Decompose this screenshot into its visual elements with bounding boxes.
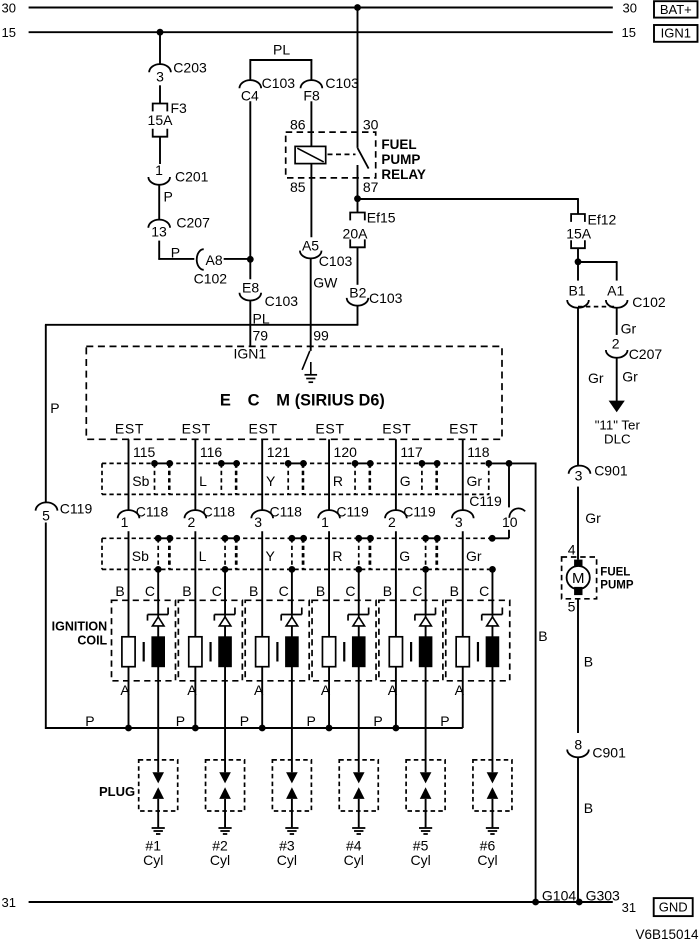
spark plug 3 ground wire <box>291 799 293 828</box>
coil 2 core <box>209 642 211 662</box>
wire C118-1 to coil 1 <box>128 531 130 637</box>
wire pin10 to shield row 2 <box>508 530 510 539</box>
svg-text:13: 13 <box>151 224 167 240</box>
wire C119-3 to coil 6 <box>462 531 464 637</box>
connector C118 pin 1 <box>118 510 140 518</box>
coil 5 secondary winding <box>419 637 432 667</box>
svg-text:C103: C103 <box>369 290 403 306</box>
spark plug 6 ground wire <box>491 799 493 828</box>
shield row2 box Y <box>236 537 292 539</box>
svg-text:C: C <box>248 392 260 410</box>
coil 5 primary winding <box>389 637 402 667</box>
coil 2 secondary winding <box>219 637 232 667</box>
coil 6 secondary winding <box>486 637 499 667</box>
svg-text:5: 5 <box>568 599 576 615</box>
svg-text:C118: C118 <box>136 504 169 520</box>
svg-text:B1: B1 <box>568 282 585 298</box>
shield row2 box G <box>369 537 425 539</box>
spark plug 5 box <box>406 760 445 811</box>
svg-text:EST: EST <box>249 421 278 437</box>
EST wire pin 118 <box>462 439 464 510</box>
wire C119-2 to coil 5 <box>395 531 397 637</box>
wire C118-3 to coil 3 <box>261 531 263 637</box>
shield row1 right-end drain to B wire and C119 pin 10 <box>485 460 492 467</box>
shield row1 box Gr wire 118 <box>436 462 489 464</box>
svg-text:3: 3 <box>455 514 463 530</box>
P bus wire feeding coil A pins <box>45 727 463 729</box>
shield row1 drain bridge 4-5 <box>355 462 370 464</box>
coil 6 spark wire to plug <box>491 667 493 773</box>
coil 1 zener diode <box>148 614 169 616</box>
coil 3 C internal wire <box>291 626 293 637</box>
junction A8/C4 node <box>247 256 254 263</box>
svg-text:P: P <box>307 713 316 729</box>
svg-text:15A: 15A <box>148 112 174 128</box>
svg-text:M: M <box>572 570 585 587</box>
spark plug 5 ground <box>419 827 432 829</box>
shield row1 box Sb wire 115 <box>102 462 155 464</box>
spark plug 6 ground <box>486 827 499 829</box>
wire Ef15 to B2 <box>357 247 359 284</box>
svg-text:PUMP: PUMP <box>381 152 420 167</box>
svg-text:2: 2 <box>187 514 195 530</box>
junction node 87/Ef15/Ef12 <box>354 195 361 202</box>
svg-text:Ef12: Ef12 <box>588 212 617 228</box>
svg-text:Cyl: Cyl <box>477 852 497 868</box>
wire C203 to fuse F3 <box>159 85 161 103</box>
coil 1 C internal wire <box>157 626 159 637</box>
junction Ef12/B1/A1 <box>575 258 582 265</box>
wire A8 to junction <box>224 258 251 260</box>
svg-text:C: C <box>145 583 155 599</box>
svg-text:1: 1 <box>121 514 129 530</box>
svg-text:B2: B2 <box>349 285 366 301</box>
svg-text:20A: 20A <box>343 226 369 242</box>
connector C901 pin 3 <box>569 466 591 474</box>
svg-text:Gr: Gr <box>621 321 637 337</box>
shield row2 box R <box>303 537 359 539</box>
svg-text:C4: C4 <box>241 87 259 103</box>
shield row2 drain bridge 5-6 <box>426 537 438 539</box>
svg-text:86: 86 <box>290 116 306 132</box>
svg-text:EST: EST <box>382 421 411 437</box>
wire B2 to PL horizontal <box>357 306 359 325</box>
svg-text:2: 2 <box>612 336 620 352</box>
junction coil 5 A to P bus <box>393 725 400 732</box>
svg-text:117: 117 <box>400 444 423 460</box>
svg-text:FUEL: FUEL <box>600 566 630 578</box>
shield row2 drain node to coil 6 C pin <box>489 566 496 573</box>
ignition coil 3 box <box>245 600 309 681</box>
svg-text:B: B <box>584 654 593 670</box>
svg-text:C207: C207 <box>629 346 663 362</box>
EST wire pin 120 <box>328 439 330 510</box>
svg-text:C103: C103 <box>319 253 353 269</box>
svg-text:C103: C103 <box>265 293 299 309</box>
svg-text:4: 4 <box>568 541 576 557</box>
spark plug 1 ground <box>152 827 165 829</box>
svg-text:C118: C118 <box>270 504 303 520</box>
relay coil <box>295 146 326 163</box>
fuse F3 15A <box>153 104 168 112</box>
svg-text:A: A <box>388 682 398 698</box>
svg-text:A: A <box>455 682 465 698</box>
svg-text:87: 87 <box>363 179 379 195</box>
coil 2 C internal wire <box>224 626 226 637</box>
ignition coil 5 box <box>379 600 443 681</box>
svg-text:GND: GND <box>659 900 688 915</box>
svg-text:R: R <box>333 473 343 489</box>
connector A8 C102 <box>197 249 204 270</box>
svg-text:Cyl: Cyl <box>410 852 430 868</box>
svg-text:C901: C901 <box>592 745 626 761</box>
fuel pump motor M <box>567 566 590 589</box>
svg-text:#1: #1 <box>145 838 161 854</box>
wire C201 to C207, P <box>158 185 160 220</box>
arrow to DLC <box>609 401 625 413</box>
svg-text:P: P <box>240 713 249 729</box>
svg-text:(SIRIUS D6): (SIRIUS D6) <box>295 392 385 410</box>
svg-text:PL: PL <box>273 42 290 58</box>
coil 4 primary winding <box>322 637 335 667</box>
ignition coil 4 box <box>312 600 376 681</box>
BAT+ terminal box <box>654 1 698 17</box>
svg-text:85: 85 <box>290 179 306 195</box>
svg-text:C: C <box>212 583 222 599</box>
svg-text:#5: #5 <box>413 838 429 854</box>
coil 4 core <box>343 642 345 662</box>
svg-text:A1: A1 <box>607 282 624 298</box>
spark plug 1 ground wire <box>157 799 159 828</box>
svg-text:A: A <box>187 682 197 698</box>
svg-text:30: 30 <box>2 0 16 15</box>
wire to A1 <box>616 262 618 281</box>
relay pin 87 wire <box>357 165 359 199</box>
svg-text:C: C <box>412 583 422 599</box>
EST wire pin 121 <box>261 439 263 510</box>
shield row2 box Gr <box>436 537 492 539</box>
coil 1 spark wire to plug <box>157 667 159 773</box>
shield row1 box L wire 116 <box>169 462 222 464</box>
svg-text:P: P <box>50 400 59 416</box>
connector C118 pin 2 <box>185 510 207 518</box>
connector C119 pin 10 <box>509 508 525 517</box>
svg-text:Sb: Sb <box>132 473 149 489</box>
svg-text:C119: C119 <box>60 500 93 516</box>
svg-text:116: 116 <box>200 444 223 460</box>
wire B1 down to C901, Gr <box>577 308 579 466</box>
svg-text:"11" Ter: "11" Ter <box>595 418 641 433</box>
coil 1 core <box>143 642 145 662</box>
svg-text:EST: EST <box>449 421 478 437</box>
coil 1 primary winding <box>122 637 135 667</box>
svg-text:L: L <box>199 473 207 489</box>
svg-text:B: B <box>450 583 459 599</box>
svg-text:C102: C102 <box>632 294 666 310</box>
svg-text:Cyl: Cyl <box>210 852 230 868</box>
svg-text:C119: C119 <box>469 493 502 509</box>
svg-text:A: A <box>120 682 130 698</box>
svg-text:COIL: COIL <box>77 633 107 647</box>
svg-text:31: 31 <box>2 895 16 910</box>
svg-text:B: B <box>538 628 547 644</box>
ground G104 junction <box>532 899 539 906</box>
svg-text:Gr: Gr <box>466 548 482 564</box>
wire bus30 to relay pin 30 <box>354 4 361 11</box>
svg-text:B: B <box>115 583 124 599</box>
svg-text:L: L <box>199 548 207 564</box>
svg-text:PUMP: PUMP <box>600 579 634 591</box>
svg-text:3: 3 <box>254 514 262 530</box>
svg-text:IGN1: IGN1 <box>234 346 267 362</box>
spark plug 2 ground wire <box>224 799 226 828</box>
svg-text:C: C <box>479 583 489 599</box>
svg-text:F3: F3 <box>171 100 188 116</box>
svg-text:B: B <box>249 583 258 599</box>
coil 1 pin A wire <box>128 667 130 729</box>
svg-text:P: P <box>85 713 94 729</box>
coil 2 primary winding <box>189 637 202 667</box>
IGN1 terminal box <box>654 25 698 42</box>
coil 5 spark wire to plug <box>425 667 427 773</box>
coil 6 C internal wire <box>491 626 493 637</box>
wire E8 to ECM pin 79, PL <box>249 300 251 346</box>
wire C901-8 to ground bus, B <box>577 757 579 902</box>
spark plug 2 box <box>206 760 245 811</box>
svg-text:79: 79 <box>253 327 269 343</box>
fuse Ef15 20A <box>350 213 365 221</box>
spark plug 3 box <box>272 760 311 811</box>
spark plug 2 ground <box>218 827 231 829</box>
svg-text:10: 10 <box>502 514 518 530</box>
svg-text:C103: C103 <box>325 75 359 91</box>
shield row2 drain bridge 1-2 <box>158 537 170 539</box>
wire Ef12 branch down <box>577 199 579 214</box>
wire junction to B1 <box>577 262 579 281</box>
svg-text:2: 2 <box>388 514 396 530</box>
coil 4 zener diode <box>348 614 369 616</box>
fuel pump terminal bottom <box>574 587 582 595</box>
svg-text:Cyl: Cyl <box>344 852 364 868</box>
shield row2 box L <box>169 537 225 539</box>
fuel pump relay box <box>286 132 376 178</box>
svg-text:EST: EST <box>182 421 211 437</box>
shield row2 drain node to coil 4 C pin <box>355 566 362 573</box>
coil 3 core <box>276 642 278 662</box>
svg-text:Cyl: Cyl <box>277 852 297 868</box>
shield row2 drain node to coil 1 C pin <box>155 566 162 573</box>
spark plug 2 gap electrodes <box>219 772 231 783</box>
coil 4 secondary winding <box>352 637 365 667</box>
svg-text:C119: C119 <box>403 504 436 520</box>
junction coil 1 A to P bus <box>125 725 132 732</box>
svg-text:#2: #2 <box>212 838 228 854</box>
spark plug 6 box <box>473 760 512 811</box>
svg-text:C901: C901 <box>594 463 628 479</box>
B1-A1 connector link <box>578 306 617 308</box>
svg-text:A: A <box>321 682 331 698</box>
svg-text:99: 99 <box>313 327 329 343</box>
spark plug 4 gap electrodes <box>353 772 365 783</box>
svg-text:BAT+: BAT+ <box>660 2 692 17</box>
svg-text:G: G <box>400 473 411 489</box>
svg-text:Gr: Gr <box>585 510 601 526</box>
coil 5 C internal wire <box>425 626 427 637</box>
wire junction to fuse Ef15 <box>357 199 359 213</box>
ignition coil 6 box <box>446 600 510 681</box>
coil 2 pin A wire <box>194 667 196 729</box>
svg-text:C103: C103 <box>262 75 296 91</box>
svg-text:P: P <box>171 245 180 261</box>
shield row 2 bottom dashed edge <box>102 568 489 570</box>
svg-text:P: P <box>440 713 449 729</box>
svg-text:GW: GW <box>313 275 338 291</box>
svg-text:PLUG: PLUG <box>99 784 135 799</box>
bus 30 (BAT+) wire <box>29 7 613 9</box>
shield row2 drain node to coil 3 C pin <box>289 566 296 573</box>
bus 15 (IGN1) wire <box>29 31 613 33</box>
coil 3 spark wire to plug <box>291 667 293 773</box>
svg-text:30: 30 <box>363 116 379 132</box>
svg-text:G104: G104 <box>542 888 576 904</box>
svg-text:3: 3 <box>575 467 583 483</box>
svg-text:Sb: Sb <box>132 548 149 564</box>
wire F3 to C201 <box>159 137 161 164</box>
connector C119 pin 5 <box>36 502 58 510</box>
EST wire pin 117 <box>395 439 397 510</box>
wire C207 down and right to A8, P <box>158 241 160 260</box>
coil 5 pin A wire <box>395 667 397 729</box>
svg-text:F8: F8 <box>303 87 320 103</box>
EST wire pin 116 <box>194 439 196 510</box>
EST wire pin 115 <box>128 439 130 510</box>
shield row1 drain bridge 2-3 <box>221 462 236 464</box>
ECM internal ground symbol <box>310 362 312 374</box>
spark plug 6 gap electrodes <box>487 772 499 783</box>
svg-text:G303: G303 <box>586 888 620 904</box>
spark plug 5 ground wire <box>425 799 427 828</box>
wire C207 to DLC arrow, Gr <box>616 358 618 401</box>
wire drain to C119 pin 10 <box>508 463 510 507</box>
svg-text:3: 3 <box>156 69 164 85</box>
coil 2 zener diode <box>214 614 235 616</box>
connector C203 pin 3 <box>149 64 171 72</box>
wire F8 to relay coil <box>310 101 312 146</box>
svg-text:IGNITION: IGNITION <box>52 620 108 634</box>
shield row2 drain node to coil 2 C pin <box>222 566 229 573</box>
ignition coil 1 box <box>112 600 176 681</box>
shield row1 drain bridge 3-4 <box>288 462 303 464</box>
svg-text:R: R <box>332 548 342 564</box>
svg-text:1: 1 <box>321 514 329 530</box>
coil 5 zener diode <box>415 614 436 616</box>
svg-text:Gr: Gr <box>588 370 604 386</box>
coil 3 pin A wire <box>261 667 263 729</box>
fuel pump terminal top <box>574 560 582 568</box>
fuse Ef12 15A <box>571 214 585 222</box>
junction coil 2 A to P bus <box>192 725 199 732</box>
shield row2 drain bridge 2-3 <box>225 537 237 539</box>
svg-text:DLC: DLC <box>604 431 631 446</box>
shield row2 box Sb <box>102 537 158 539</box>
coil 5 core <box>410 642 412 662</box>
svg-text:C207: C207 <box>176 214 210 230</box>
shield row1 box R wire 120 <box>303 462 356 464</box>
svg-text:C118: C118 <box>203 504 236 520</box>
svg-text:C201: C201 <box>175 169 209 185</box>
svg-text:8: 8 <box>574 736 582 752</box>
PL horizontal wire to left P and B2 <box>45 324 358 326</box>
relay switch blade <box>358 148 369 169</box>
svg-text:M: M <box>276 392 290 410</box>
svg-text:P: P <box>373 713 382 729</box>
wire A1 to C207, Gr <box>616 308 618 335</box>
bus 31 (GND) wire <box>29 901 613 903</box>
svg-text:Y: Y <box>266 548 276 564</box>
svg-text:C: C <box>345 583 355 599</box>
svg-text:FUEL: FUEL <box>381 137 416 152</box>
connector C119 pin 2 <box>385 510 407 518</box>
svg-text:1: 1 <box>155 162 163 178</box>
svg-text:#4: #4 <box>346 838 362 854</box>
svg-text:B: B <box>316 583 325 599</box>
svg-text:15A: 15A <box>566 225 592 241</box>
svg-text:115: 115 <box>133 444 156 460</box>
svg-text:Ef15: Ef15 <box>367 209 396 225</box>
left P wire from PL to P bus <box>45 325 47 503</box>
svg-text:C: C <box>279 583 289 599</box>
coil 6 primary winding <box>456 637 469 667</box>
svg-text:B: B <box>584 800 593 816</box>
svg-text:A8: A8 <box>206 252 223 268</box>
svg-text:C119: C119 <box>336 504 369 520</box>
coil 1 secondary winding <box>152 637 165 667</box>
PL bridge wire <box>249 59 251 80</box>
wire bus15 to C203 <box>159 32 161 64</box>
svg-text:V6B15014: V6B15014 <box>635 927 699 942</box>
wire C4 to A8 junction to E8 <box>249 101 251 279</box>
coil 6 zener diode <box>482 614 503 616</box>
spark plug 1 gap electrodes <box>152 772 164 783</box>
connector C4 C103 <box>239 80 261 88</box>
svg-text:G: G <box>399 548 410 564</box>
shield row1 box G wire 117 <box>369 462 422 464</box>
coil 6 pin A wire <box>462 667 464 728</box>
spark plug 3 gap electrodes <box>286 772 298 783</box>
coil 6 core <box>477 642 479 662</box>
shield row 1 bottom dashed edge <box>102 493 489 495</box>
wire A5 to ECM pin 99, GW <box>310 258 312 346</box>
junction on bus 15 at x160 <box>157 29 164 36</box>
shield row1 box Y wire 121 <box>236 462 289 464</box>
svg-text:RELAY: RELAY <box>381 167 426 182</box>
svg-text:Gr: Gr <box>622 369 638 385</box>
junction coil 4 A to P bus <box>326 725 333 732</box>
shield row2 drain node to coil 5 C pin <box>422 566 429 573</box>
svg-text:30: 30 <box>623 0 637 15</box>
spark plug 3 ground <box>285 827 298 829</box>
coil 3 secondary winding <box>286 637 299 667</box>
wire relay 85 to A5 <box>310 164 312 238</box>
relay coil-switch link (dashed) <box>328 153 356 155</box>
svg-text:15: 15 <box>622 25 636 40</box>
connector C119 pin 1 <box>318 510 340 518</box>
svg-text:EST: EST <box>315 421 344 437</box>
svg-text:Cyl: Cyl <box>143 852 163 868</box>
shield row1 drain bridge 1-2 <box>155 462 170 464</box>
spark plug 4 ground wire <box>358 799 360 828</box>
GND terminal box <box>654 898 693 916</box>
